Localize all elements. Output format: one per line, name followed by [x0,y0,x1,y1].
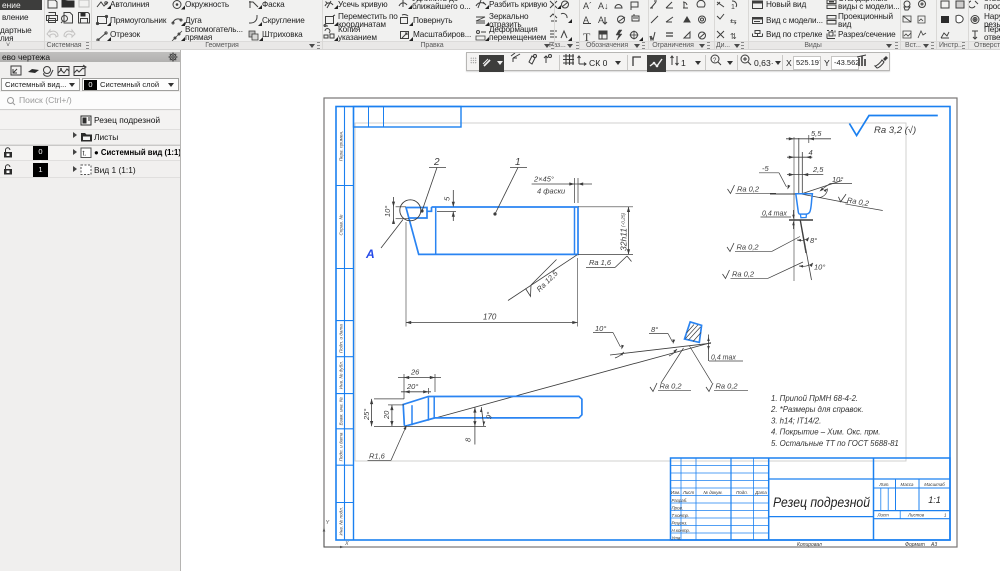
svg-text:-5: -5 [762,164,769,173]
flag Ra 0,2 #2 [837,193,884,211]
svg-text:20: 20 [382,410,391,420]
svg-text:5. Остальные ТТ по ГОСТ 5688-8: 5. Остальные ТТ по ГОСТ 5688-81 [771,439,899,448]
svg-text:26: 26 [410,368,420,377]
svg-text:A3: A3 [930,542,937,548]
detail circle A [400,200,421,221]
dim 5 [437,211,456,213]
main view part outline [406,207,578,254]
svg-text:Перв. примен.: Перв. примен. [339,131,344,162]
flag Ra 0,2 #3 [727,243,734,252]
svg-text:8°: 8° [810,236,817,245]
svg-text:Ra 0,2: Ra 0,2 [737,243,760,252]
wedge lines [408,343,712,426]
svg-text:Н.контр.: Н.контр. [672,528,691,533]
svg-text:Формат: Формат [905,542,925,548]
svg-text:20°: 20° [406,382,418,391]
tip detail centerline [793,137,795,281]
svg-text:А: А [365,247,375,261]
svg-text:4 фаски: 4 фаски [537,187,566,196]
svg-text:10°: 10° [832,175,843,184]
svg-text:2: 2 [433,157,440,168]
svg-text:4: 4 [809,148,813,157]
roughness corner symbol [849,116,937,136]
svg-text:Утв.: Утв. [672,535,682,540]
svg-text:Т.контр.: Т.контр. [672,513,690,518]
top-left stamp [354,107,462,128]
svg-text:⇆: ⇆ [730,17,737,26]
dim 10 left [396,206,406,208]
dim 2,5 [787,174,823,176]
svg-text:8°: 8° [651,325,658,334]
svg-text:A: A [598,15,604,25]
svg-text:1. Припой ПрМН 68-4-2.: 1. Припой ПрМН 68-4-2. [771,394,858,403]
svg-text:Ra 0,2: Ra 0,2 [732,270,755,279]
dim 4 [787,156,812,158]
svg-text:10°: 10° [383,206,392,217]
svg-text:32h11: 32h11 [619,228,629,251]
svg-text:t.: t. [83,151,87,158]
pos leader 1 [495,168,518,215]
angle 8 [797,238,809,241]
svg-text:Масса: Масса [901,482,915,487]
svg-text:3. h14; IT14/2.: 3. h14; IT14/2. [771,416,821,425]
view boundary (gray) [355,123,906,461]
svg-text:Изм.: Изм. [671,490,680,495]
svg-text:10°: 10° [814,263,825,272]
svg-text:Лист: Лист [682,490,695,495]
svg-text:№ докум.: № докум. [703,490,722,495]
drawing frame [336,107,950,541]
svg-text:1:1: 1:1 [928,495,941,505]
svg-text:Подп. и дата: Подп. и дата [339,324,344,353]
svg-text:Ra 0,2: Ra 0,2 [716,382,739,391]
flank slant lines [800,220,806,253]
angle 10 lower [799,263,813,266]
title block [671,458,951,540]
svg-text:A´: A´ [583,1,592,11]
svg-text:R1,6: R1,6 [369,452,386,461]
dim 5,5 [786,138,831,140]
dim 2x45 chamfer [574,178,576,203]
svg-text:Масштаб: Масштаб [924,482,945,487]
dim 25deg [374,398,404,400]
svg-text:Пров.: Пров. [672,505,684,510]
blue tip profile [796,194,813,214]
sheet origin axes [324,529,342,547]
svg-text:25°: 25° [362,409,371,421]
svg-text:(-0,25): (-0,25) [621,212,627,227]
svg-text:Взам. инв. №: Взам. инв. № [339,397,344,425]
svg-text:4. Покрытие – Хим. Окс. прм.: 4. Покрытие – Хим. Окс. прм. [771,428,880,437]
svg-text:Ra 0,2: Ra 0,2 [660,382,683,391]
dim 26 [403,374,405,399]
svg-text:2,5: 2,5 [812,165,824,174]
svg-text:Резец подрезной: Резец подрезной [773,495,870,510]
svg-text:170: 170 [483,313,497,322]
svg-text:Справ. №: Справ. № [339,215,344,236]
dim 170 [405,222,407,327]
Ra 12,5 flag rotated [508,255,577,301]
flag Ra 0,2 #4 [723,270,730,279]
svg-text:Лит.: Лит. [878,482,889,487]
left margin cells [336,185,354,187]
svg-text:10°: 10° [595,324,606,333]
svg-text:0,4 max: 0,4 max [711,355,736,362]
dim 32h11 [578,206,633,208]
flag Ra 0,2 #6 [706,383,713,392]
bottom view part outline [403,396,582,426]
svg-text:Листов: Листов [907,513,925,518]
pos leader 2 [422,168,437,212]
svg-text:Лист: Лист [877,513,890,518]
svg-text:Ra 0,2: Ra 0,2 [737,185,760,194]
svg-text:Ra 3,2 (√): Ra 3,2 (√) [874,125,916,136]
svg-text:0,4 max: 0,4 max [762,211,787,218]
flag Ra 0,2 #1 [728,185,735,194]
svg-text:Копировал: Копировал [797,542,822,548]
svg-text:Инв. № дубл.: Инв. № дубл. [339,361,344,389]
svg-text:X: X [344,541,349,547]
svg-text:⇅: ⇅ [730,32,737,41]
svg-text:Реценз.: Реценз. [672,520,688,525]
svg-text:A↓: A↓ [598,1,609,11]
svg-text:Y: Y [326,520,330,526]
svg-text:2. *Размеры для справок.: 2. *Размеры для справок. [770,405,864,414]
svg-text:Подп. и дата: Подп. и дата [339,432,344,461]
svg-text:Подп.: Подп. [736,490,748,495]
dim 9deg [481,407,484,426]
svg-text:5,5: 5,5 [811,129,822,138]
svg-text:Ra 1,6: Ra 1,6 [589,258,612,267]
hatched insert [685,322,702,343]
dim 20deg [427,388,429,394]
flag Ra 0,2 #5 [650,383,657,392]
sheet paper [324,98,957,547]
dim 20 [388,404,404,406]
svg-text:1: 1 [515,157,521,168]
svg-text:Разраб.: Разраб. [672,498,688,503]
dim 8 [474,407,476,444]
svg-text:2×45°: 2×45° [533,175,554,184]
svg-text:Инв. № подл.: Инв. № подл. [339,507,344,536]
svg-text:1: 1 [731,4,735,11]
top face lines [770,193,801,195]
svg-text:Дата: Дата [754,490,767,495]
